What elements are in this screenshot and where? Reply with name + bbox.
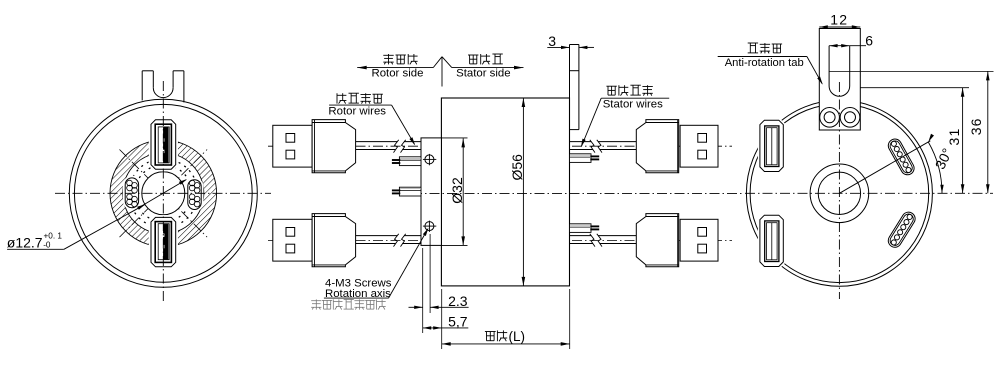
main body rectangle [441, 98, 569, 286]
stator USB connector top-right with cable [570, 120, 719, 173]
hatched cross-section ring [110, 140, 217, 247]
svg-text:31: 31 [946, 128, 962, 146]
USB connector top (front view) [151, 120, 176, 169]
svg-text:5,7: 5,7 [448, 313, 468, 329]
wire hole oval right with wire bundle [188, 180, 201, 210]
label stator wires with leader [581, 85, 669, 147]
svg-text:3: 3 [548, 33, 556, 49]
svg-text:+0. 1: +0. 1 [44, 231, 63, 240]
label 4-M3 screws rotation axis with leader [311, 228, 428, 310]
stator wire stub lower [570, 224, 600, 233]
dimension 6 (slot width) [829, 33, 873, 49]
rotor side / stator side header [357, 54, 523, 87]
label rotor wires with leader [328, 93, 415, 145]
rotor wire stub on axis [392, 187, 421, 196]
M3 screw hole symbol upper [423, 154, 436, 165]
anti-rotation tab block with rivets [819, 29, 860, 131]
wire hole slot lower-right [886, 210, 918, 250]
inner housing circle [74, 104, 252, 282]
svg-text:-0: -0 [43, 241, 51, 250]
svg-text:ø12.7: ø12.7 [7, 235, 43, 251]
svg-text:Rotor wires: Rotor wires [328, 105, 386, 117]
svg-text:(L): (L) [509, 329, 526, 344]
svg-text:Stator wires: Stator wires [603, 99, 663, 111]
inner housing circle [750, 104, 929, 283]
top connector pair centerline [268, 145, 421, 147]
wire hole slot upper-right [886, 137, 917, 177]
dimension 12 (tab width) [819, 11, 860, 28]
36 extension line [829, 70, 993, 72]
bottom connector pair centerline [268, 240, 421, 242]
30-degree line from center [839, 141, 930, 194]
dimension Ø32 [449, 138, 465, 245]
outer housing circle [746, 100, 932, 286]
svg-text:Ø56: Ø56 [509, 154, 525, 181]
dimension 5,7 [423, 313, 469, 329]
dotted contact circles [135, 165, 192, 222]
svg-text:2.3: 2.3 [448, 293, 468, 309]
USB connector lower-left (rear view) [760, 215, 783, 266]
svg-text:36: 36 [968, 117, 984, 135]
rotor USB connector top-left with cable [273, 120, 421, 173]
dimension length L [442, 289, 570, 349]
M3 screw hole symbol lower [423, 221, 436, 232]
diagonal 45-degree centerlines [120, 150, 208, 238]
rotor wire stub upper [392, 157, 421, 166]
anti-rotation tab (side view, 3mm) [570, 45, 579, 130]
dimension label Ø12.7 +0.1/-0 with leader [7, 204, 146, 251]
rotor flange plate [421, 138, 441, 246]
dimension 31 [946, 88, 965, 194]
svg-text:12: 12 [830, 11, 848, 27]
outer housing circle [69, 99, 257, 287]
center bore circle [818, 172, 860, 214]
main axis centerline [412, 192, 742, 194]
USB connector bottom (front view) [151, 217, 176, 266]
svg-text:Stator side: Stator side [456, 68, 510, 80]
anti-rotation fork tab (front view) [142, 71, 184, 103]
center bore circle Ø12.7 [142, 172, 185, 215]
31 extension line [860, 87, 969, 89]
30-degree reference line with arrow to right oval [141, 180, 187, 207]
left view horizontal centerline [55, 192, 271, 194]
dimension Ø56 [509, 98, 525, 286]
middle view: side cross-section [268, 33, 742, 349]
stator USB connector bottom-right with cable [570, 214, 719, 267]
svg-text:Rotor side: Rotor side [372, 68, 424, 80]
label anti-rotation tab with leader [718, 43, 823, 85]
30-degree angle arc [928, 142, 942, 193]
svg-text:Ø32: Ø32 [449, 177, 465, 204]
dimension 3 (tab thickness) [547, 33, 594, 49]
dimension 36 [968, 71, 990, 193]
wire hole oval left with wire bundle [125, 178, 138, 208]
left view: front view of slip ring [7, 71, 271, 303]
right view horizontal centerline [745, 192, 993, 194]
dimension 2.3 with extension lines [409, 234, 469, 333]
svg-text:6: 6 [865, 33, 873, 49]
left view vertical centerline [162, 81, 164, 303]
rotor USB connector bottom-left with cable [273, 214, 421, 267]
svg-text:Anti-rotation tab: Anti-rotation tab [725, 57, 804, 69]
right view vertical centerline [838, 82, 840, 299]
right view: stator side view [718, 11, 994, 299]
center hub circle [810, 164, 869, 223]
USB connector upper-left (rear view) [760, 120, 783, 171]
stator wire stub upper [570, 154, 600, 163]
